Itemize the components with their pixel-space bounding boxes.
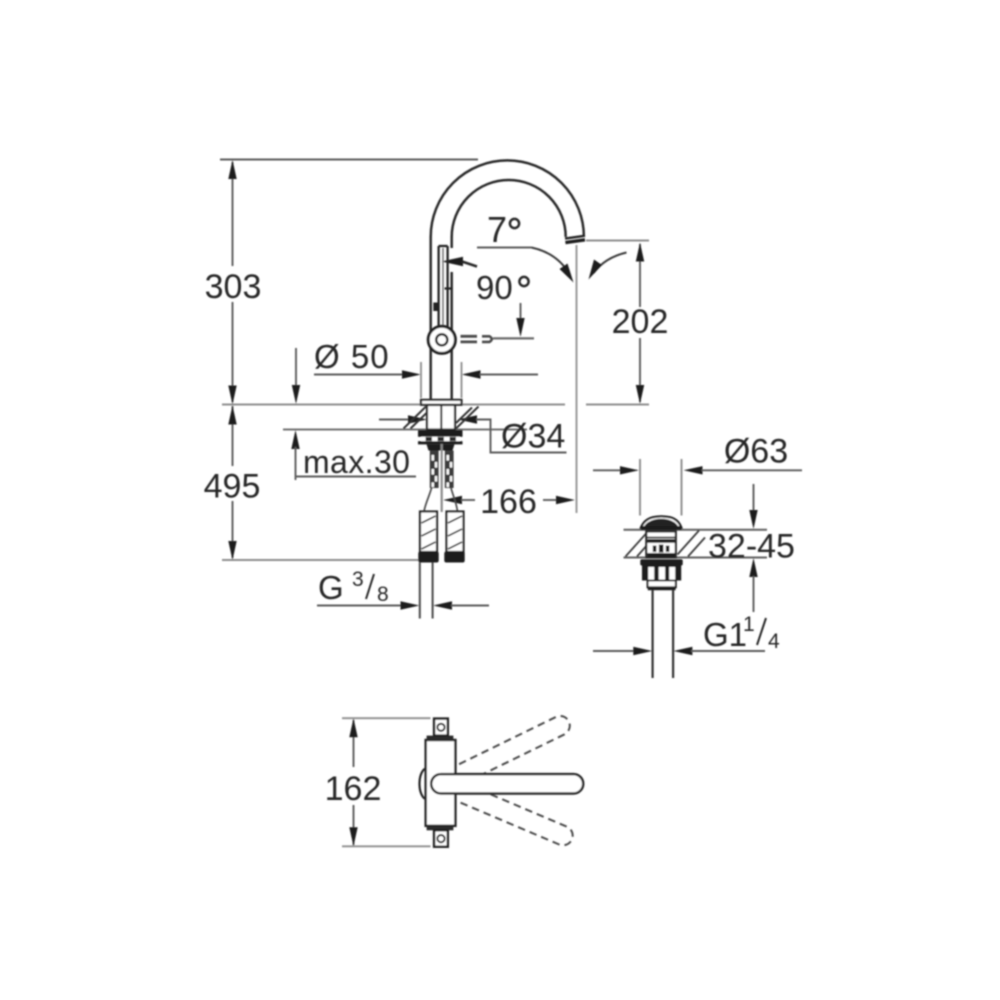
svg-text:G1: G1 (703, 616, 747, 653)
thread tail lines below fitting (420, 563, 433, 619)
side view extension lines (342, 718, 431, 846)
svg-text:G: G (318, 569, 344, 606)
right supply tail (445, 451, 454, 489)
extension line top of spout (220, 159, 478, 161)
dashed lever position up (428, 713, 573, 797)
dimension D34 (379, 415, 567, 455)
MAIN VIEW (204, 160, 669, 619)
hose curve left (424, 488, 432, 512)
dimension 162 (325, 718, 382, 846)
drain extension lines (640, 459, 682, 516)
svg-text:Ø34: Ø34 (501, 418, 565, 456)
mounting nut (418, 430, 463, 444)
dimension 166 (443, 483, 575, 521)
dimension 202 (586, 241, 668, 405)
center stud rod (441, 444, 443, 512)
drain dome cap (641, 516, 682, 531)
handle joint circle (428, 326, 455, 353)
counter hatching right (456, 407, 479, 429)
drain lower ring (648, 581, 676, 589)
SIDE VIEW (325, 713, 584, 849)
bottom cap (434, 830, 448, 846)
left hose fitting (418, 552, 438, 563)
drain tailpipe (653, 590, 674, 678)
svg-text:166: 166 (480, 483, 537, 521)
dimension 495 (204, 406, 261, 561)
extension line hose bottom (222, 559, 421, 561)
hose curve right (451, 488, 458, 512)
counter hatching left (404, 407, 427, 429)
svg-text:495: 495 (204, 468, 261, 506)
dimension 32-45 (708, 484, 795, 612)
dashed lever position down (428, 771, 575, 848)
svg-text:max.30: max.30 (303, 444, 410, 480)
drain nut (642, 566, 681, 581)
svg-text:Ø63: Ø63 (724, 433, 788, 471)
spout arc inner (452, 180, 566, 237)
top shoulder (427, 736, 454, 741)
svg-text:4: 4 (768, 630, 780, 653)
base flange (421, 400, 462, 405)
angle label 7deg (442, 209, 532, 267)
top cap (434, 719, 448, 736)
lever handle (431, 774, 583, 793)
svg-text:90: 90 (476, 269, 513, 306)
svg-text:Ø 50: Ø 50 (314, 338, 390, 375)
pivot bulge (419, 768, 426, 799)
svg-text:8: 8 (377, 583, 389, 606)
dimension D50 (314, 338, 538, 398)
lever rod (433, 246, 451, 328)
dimension G1 1/4 (593, 613, 780, 655)
right hose fitting (444, 552, 464, 563)
basin deck section lines (624, 530, 768, 558)
svg-text:3: 3 (352, 568, 364, 591)
counter surface line (222, 404, 565, 406)
dimension max.30 (291, 348, 416, 480)
drain body in deck (646, 532, 676, 558)
threaded shank below nut (427, 444, 455, 450)
deck hatching left (626, 533, 653, 557)
dimension G3/8 (317, 568, 489, 610)
svg-text:7: 7 (487, 209, 507, 250)
dimension D63 (593, 433, 802, 475)
spout outlet aerator (565, 236, 585, 243)
cartridge body (426, 740, 456, 826)
left hose (420, 512, 437, 553)
svg-text:162: 162 (325, 770, 382, 808)
handle position indicator marks (461, 336, 535, 342)
svg-text:202: 202 (612, 303, 669, 341)
angle label 90deg with swing arcs (476, 248, 627, 338)
water stream reference line (576, 245, 578, 513)
svg-text:1: 1 (743, 613, 755, 636)
riser tube (431, 237, 452, 400)
counter underside line (283, 429, 527, 431)
svg-text:32-45: 32-45 (708, 528, 795, 566)
left supply tail (430, 451, 439, 489)
drain locking flange (640, 559, 682, 565)
shank through counter (427, 405, 455, 430)
deck hatching right (678, 531, 706, 557)
DRAIN VIEW (593, 433, 802, 679)
spout arc outer (431, 160, 584, 237)
dimension 303 (205, 160, 262, 405)
right hose (447, 512, 464, 553)
bottom shoulder (427, 825, 454, 830)
svg-text:303: 303 (205, 268, 262, 306)
